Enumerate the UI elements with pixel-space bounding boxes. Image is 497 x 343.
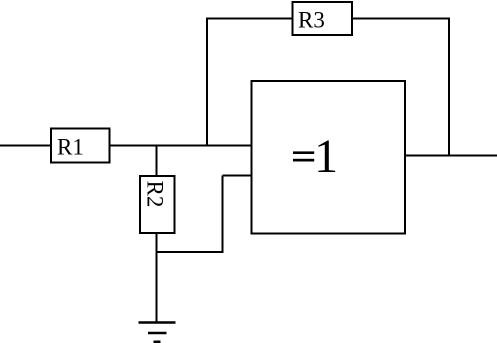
svg-text:R2: R2 [143, 181, 168, 208]
svg-text:R1: R1 [57, 135, 84, 160]
svg-text:R3: R3 [298, 8, 325, 33]
svg-text:1: 1 [314, 130, 338, 183]
